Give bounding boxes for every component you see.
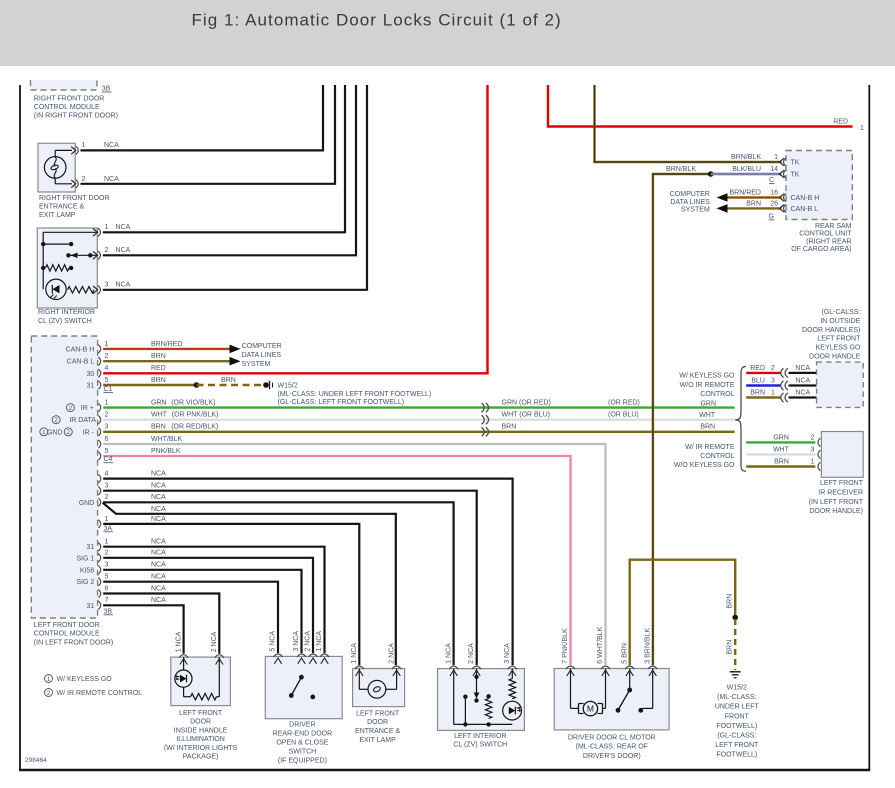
- svg-text:DOOR HANDLE): DOOR HANDLE): [809, 508, 863, 515]
- svg-text:BRN: BRN: [750, 389, 765, 396]
- motor pin 3 connector: [648, 666, 657, 669]
- module U1 pin 1 IR plus connector: [66, 400, 108, 413]
- svg-text:6: 6: [105, 436, 109, 443]
- svg-text:GRN (OR RED): GRN (OR RED): [502, 400, 551, 407]
- wire BRN/RED to rear SAM pin 16: [728, 189, 782, 197]
- svg-text:NCA: NCA: [104, 176, 119, 183]
- svg-text:CONTROL: CONTROL: [700, 453, 734, 460]
- svg-text:DRIVER DOOR CL MOTOR: DRIVER DOOR CL MOTOR: [568, 734, 656, 741]
- arrow to computer data lines 1: [230, 345, 241, 354]
- wire BRN IR remote option: [746, 458, 815, 466]
- svg-text:W/ IR REMOTE: W/ IR REMOTE: [685, 444, 735, 451]
- svg-text:W/ IR REMOTE CONTROL: W/ IR REMOTE CONTROL: [57, 690, 143, 697]
- inline connector on BRN NCA wire: [781, 393, 788, 402]
- svg-text:ENTRANCE &: ENTRANCE &: [39, 204, 84, 211]
- svg-text:1: 1: [105, 516, 109, 523]
- svg-text:(OR RED/BLK): (OR RED/BLK): [171, 424, 218, 431]
- svg-text:WHT: WHT: [699, 412, 716, 419]
- lamp L3 left front door entrance and exit lamp box: [353, 669, 405, 707]
- ground symbol W15/2: [730, 672, 741, 678]
- svg-text:G: G: [769, 213, 774, 220]
- svg-text:1: 1: [771, 389, 775, 396]
- wire WHT IR remote option: [746, 446, 815, 454]
- wire BRN to rear SAM pin 26: [728, 200, 782, 208]
- wire NCA C4 pin 4 to left interior switch pin 3: [103, 471, 512, 666]
- svg-text:W15/2: W15/2: [278, 382, 298, 389]
- wire NCA switch S1 pin 3 to top: [103, 85, 367, 290]
- connector label 3B top: [102, 86, 112, 93]
- LED in switch S3: [503, 701, 522, 720]
- svg-text:(OR VIO/BLK): (OR VIO/BLK): [171, 400, 215, 407]
- svg-text:OF CARGO AREA): OF CARGO AREA): [791, 246, 851, 253]
- rear-end switch pin 5 connector: [273, 654, 282, 657]
- wire NCA switch S1 pin 2 to top: [103, 85, 356, 255]
- svg-text:CONTROL MODULE: CONTROL MODULE: [34, 104, 100, 111]
- svg-text:(OR BLU): (OR BLU): [608, 412, 639, 419]
- connector label G rear SAM: [769, 213, 775, 220]
- svg-text:1: 1: [105, 341, 109, 348]
- svg-text:IR DATA: IR DATA: [69, 417, 96, 424]
- svg-text:BRN: BRN: [151, 424, 166, 431]
- module U1 pin 6 connector: [98, 436, 108, 448]
- svg-text:2: 2: [771, 365, 775, 372]
- module U1 pin 5 connector: [98, 448, 108, 460]
- svg-text:KEYLESS GO: KEYLESS GO: [816, 345, 861, 352]
- svg-text:LEFT INTERIOR: LEFT INTERIOR: [454, 733, 506, 740]
- wire NCA keyless go pin 3: [789, 377, 817, 385]
- svg-text:4: 4: [105, 365, 109, 372]
- svg-text:1: 1: [774, 154, 778, 161]
- switch S2 driver rear-end door open and close switch box: [265, 656, 342, 718]
- svg-text:EXIT LAMP: EXIT LAMP: [39, 212, 76, 219]
- module U1 pin 6 3A connector: [98, 585, 108, 597]
- lamp L2 left front door inside handle illumination box: [171, 657, 231, 706]
- wire BRN IR minus to brace: [103, 423, 734, 432]
- svg-text:GND: GND: [79, 500, 95, 507]
- svg-text:2: 2: [105, 412, 109, 419]
- svg-text:NCA: NCA: [795, 365, 810, 372]
- svg-text:LEFT FRONT: LEFT FRONT: [356, 710, 400, 717]
- connector label C rear SAM: [769, 177, 775, 184]
- svg-text:1 NCA: 1 NCA: [175, 631, 182, 652]
- svg-text:RED: RED: [833, 118, 848, 125]
- svg-text:W/O KEYLESS GO: W/O KEYLESS GO: [674, 462, 735, 469]
- svg-text:BRN: BRN: [151, 353, 166, 360]
- svg-text:IN OUTSIDE: IN OUTSIDE: [820, 318, 860, 325]
- connector label C1: [104, 386, 114, 393]
- svg-text:CONTROL: CONTROL: [700, 391, 734, 398]
- svg-text:BRN/BLK: BRN/BLK: [666, 166, 696, 173]
- svg-text:Fig 1: Automatic Door Locks Ci: Fig 1: Automatic Door Locks Circuit (1 o…: [192, 11, 562, 30]
- illumination pin 1 connector: [179, 655, 188, 658]
- svg-text:5 NCA: 5 NCA: [270, 631, 277, 652]
- module U1 pin 3 KI58 connector: [80, 562, 109, 575]
- wire BLU keyless go option: [746, 377, 780, 385]
- svg-text:C4: C4: [104, 456, 113, 463]
- wire NCA lamp L1 pin 1 to top: [81, 85, 324, 150]
- module U1 pin 3 C4 connector: [98, 483, 108, 495]
- wire NCA switch S1 pin 1 to top: [103, 85, 345, 232]
- module U1 left front door control module box: [31, 336, 97, 618]
- module fragment right front door control module: [31, 80, 98, 90]
- lamp L1 pin 1 connector: [71, 142, 85, 154]
- svg-text:2: 2: [105, 247, 109, 254]
- lamp L1 right front door entrance and exit lamp box: [38, 143, 75, 192]
- IR receiver pin 3 connector: [818, 450, 820, 458]
- LED in switch S1: [46, 279, 66, 299]
- svg-text:FRONT: FRONT: [725, 713, 750, 720]
- svg-text:NCA: NCA: [795, 377, 810, 384]
- wire RED terminal 30 up to top: [103, 85, 487, 373]
- motor pin 7 connector: [566, 666, 575, 669]
- wire NCA 3A pin 7 to inside handle illumination pin 1: [103, 597, 183, 654]
- svg-text:(GL-CALSS:: (GL-CALSS:: [821, 309, 860, 316]
- rear-end switch pin 3 connector: [297, 654, 306, 657]
- svg-text:W/ KEYLESS GO: W/ KEYLESS GO: [57, 676, 113, 683]
- switch S3 pin 1 connector: [449, 666, 458, 669]
- svg-text:BRN: BRN: [727, 640, 734, 655]
- svg-text:BLK/BLU: BLK/BLU: [732, 166, 761, 173]
- inline connector pair on BRN wire: [482, 427, 489, 436]
- svg-text:NCA: NCA: [151, 471, 166, 478]
- wire NCA 3A pin 6 to inside handle illumination pin 2: [103, 585, 219, 653]
- svg-text:IR RECEIVER: IR RECEIVER: [818, 490, 863, 497]
- wire BRN/BLK branch down to driver door CL motor pin 3: [653, 166, 711, 665]
- wire NCA C4 pin 1 to left front door lamp pin 1: [103, 516, 359, 665]
- svg-text:SIG 2: SIG 2: [76, 579, 94, 586]
- svg-text:LEFT FRONT: LEFT FRONT: [179, 710, 223, 717]
- module U1 pin 2 CAN-B L connector: [67, 353, 109, 366]
- svg-text:6 WHT/BLK: 6 WHT/BLK: [597, 626, 604, 663]
- brace selector for keyless go / IR remote options: [735, 366, 746, 471]
- svg-text:2: 2: [105, 353, 109, 360]
- svg-text:(IN RIGHT FRONT DOOR): (IN RIGHT FRONT DOOR): [34, 113, 118, 120]
- svg-text:(IN LEFT FRONT DOOR): (IN LEFT FRONT DOOR): [34, 639, 113, 646]
- svg-text:5 BRN: 5 BRN: [621, 643, 628, 664]
- module U3 left front keyless go door handle box: [817, 362, 864, 407]
- illumination pin 2 connector: [215, 655, 224, 658]
- svg-text:BRN/RED: BRN/RED: [729, 189, 761, 196]
- svg-text:FOOTWELL): FOOTWELL): [716, 752, 757, 759]
- svg-text:BRN/BLK: BRN/BLK: [731, 154, 761, 161]
- svg-text:DATA LINES: DATA LINES: [670, 199, 710, 206]
- svg-text:2: 2: [105, 550, 109, 557]
- svg-text:26: 26: [770, 200, 778, 207]
- svg-text:NCA: NCA: [116, 247, 131, 254]
- svg-text:NCA: NCA: [151, 483, 166, 490]
- svg-text:BRN: BRN: [502, 424, 517, 431]
- svg-text:REAR SAM: REAR SAM: [815, 223, 852, 230]
- module U1 pin 3 GND IR minus connector: [40, 424, 109, 437]
- svg-text:(ML-CLASS: UNDER LEFT FRONT FO: (ML-CLASS: UNDER LEFT FRONT FOOTWELL): [278, 391, 432, 398]
- svg-text:SWITCH: SWITCH: [289, 748, 317, 755]
- junction dot on BRN ground wire: [732, 615, 738, 621]
- svg-text:1: 1: [105, 224, 109, 231]
- svg-text:31: 31: [87, 603, 95, 610]
- svg-text:NCA: NCA: [151, 562, 166, 569]
- svg-text:BRN: BRN: [746, 200, 761, 207]
- LED in illumination box: [175, 670, 192, 687]
- svg-text:3 NCA: 3 NCA: [504, 643, 511, 664]
- module U2 rear SAM control unit box: [786, 151, 852, 220]
- label W15/2 footwell: [278, 382, 432, 406]
- module U1 pin 4 C4 connector: [98, 471, 108, 483]
- motor M1 driver door CL motor box: [554, 669, 669, 730]
- svg-text:5: 5: [105, 574, 109, 581]
- svg-text:C: C: [769, 177, 774, 184]
- svg-text:PNK/BLK: PNK/BLK: [151, 448, 181, 455]
- legend circled 2 W/ IR REMOTE CONTROL: [45, 689, 143, 698]
- svg-text:REAR-END DOOR: REAR-END DOOR: [273, 730, 333, 737]
- inline connector on BLU NCA wire: [781, 381, 788, 390]
- junction dot on BRN wire: [194, 382, 200, 388]
- motor pin 6 connector: [601, 666, 610, 669]
- svg-text:C1: C1: [104, 386, 113, 393]
- svg-text:3 BRN/BLK: 3 BRN/BLK: [644, 628, 651, 664]
- wire RED keyless go option: [746, 365, 780, 373]
- inline connector pair on WHT wire: [482, 415, 489, 424]
- svg-text:BRN: BRN: [151, 377, 166, 384]
- switch S1 pin 3 connector: [93, 282, 109, 294]
- connector label C4: [104, 456, 114, 463]
- module U1 pin 4 terminal 30 connector: [87, 365, 109, 378]
- svg-text:CAN-B L: CAN-B L: [791, 206, 819, 213]
- svg-text:1: 1: [82, 142, 86, 149]
- svg-text:DRIVER'S DOOR): DRIVER'S DOOR): [583, 753, 641, 760]
- svg-text:DOOR: DOOR: [367, 719, 388, 726]
- wire WHT/BLK to driver door CL motor pin 6: [103, 436, 605, 665]
- svg-text:RIGHT INTERIOR: RIGHT INTERIOR: [38, 309, 95, 316]
- svg-text:CL (ZV) SWITCH: CL (ZV) SWITCH: [38, 318, 92, 325]
- svg-text:OPEN & CLOSE: OPEN & CLOSE: [276, 739, 328, 746]
- junction dot BRN/BLK BLK/BLU: [708, 171, 714, 177]
- svg-text:3B: 3B: [102, 86, 111, 93]
- svg-text:NCA: NCA: [151, 550, 166, 557]
- lamp L3 pin 1 connector: [355, 666, 364, 669]
- svg-text:KI58: KI58: [80, 567, 95, 574]
- svg-text:NCA: NCA: [116, 282, 131, 289]
- dashed wire BRN to ground: [734, 619, 736, 670]
- svg-text:WHT: WHT: [773, 446, 790, 453]
- svg-text:FOOTWELL): FOOTWELL): [716, 723, 757, 730]
- svg-text:DRIVER: DRIVER: [289, 721, 315, 728]
- module U4 left front IR receiver box: [821, 432, 863, 478]
- wire BLK/BLU to rear SAM pin 14: [711, 166, 782, 174]
- wire BRN keyless go option: [746, 389, 780, 397]
- module U1 pin 1 3A terminal 31 connector: [87, 539, 109, 552]
- svg-text:5: 5: [105, 377, 109, 384]
- svg-text:(ML-CLASS:: (ML-CLASS:: [717, 694, 756, 701]
- svg-text:3: 3: [105, 424, 109, 431]
- svg-text:6: 6: [105, 585, 109, 592]
- wire NCA 3A pin 3 to rear-end door switch pin 3: [103, 562, 301, 653]
- svg-text:16: 16: [770, 189, 778, 196]
- svg-text:30: 30: [87, 371, 95, 378]
- svg-text:3A: 3A: [104, 525, 113, 532]
- arrow from computer data lines to rear SAM CAN-B H: [717, 193, 728, 202]
- svg-text:SIG 1: SIG 1: [76, 555, 94, 562]
- svg-text:BLU: BLU: [751, 377, 765, 384]
- svg-text:W/ KEYLESS GO: W/ KEYLESS GO: [679, 373, 735, 380]
- wire NCA C4 pin 3 to left interior switch pin 2: [103, 483, 477, 666]
- svg-text:(OR RED): (OR RED): [608, 400, 640, 407]
- svg-text:3: 3: [105, 562, 109, 569]
- svg-text:BRN: BRN: [221, 377, 236, 384]
- wire NCA 3A pin 1 to rear-end door switch pin 1: [103, 539, 324, 654]
- module U1 pin 2 SIG 1 connector: [76, 550, 108, 563]
- svg-text:PACKAGE): PACKAGE): [183, 754, 219, 761]
- switch S3 left interior CL ZV switch box: [438, 669, 525, 731]
- svg-text:NCA: NCA: [151, 506, 166, 513]
- svg-text:NCA: NCA: [151, 585, 166, 592]
- wire NCA keyless go pin 1: [789, 389, 817, 397]
- svg-text:M: M: [587, 704, 594, 714]
- wire NCA 3A pin 2 to rear-end door switch pin 2: [103, 550, 313, 653]
- wire GRN IR remote option: [746, 434, 815, 442]
- module U1 pin 5 terminal 31 connector: [87, 377, 109, 390]
- svg-text:3: 3: [105, 282, 109, 289]
- wire BRN/RED CAN-B H to computer data lines: [103, 341, 230, 349]
- switch S3 pin 2 connector: [472, 666, 481, 669]
- connector label 3A: [104, 525, 114, 532]
- resistor in illumination box: [191, 694, 217, 700]
- svg-text:4: 4: [105, 471, 109, 478]
- rear SAM pin 1 connector: [774, 154, 800, 167]
- svg-text:14: 14: [770, 166, 778, 173]
- svg-text:1 NCA: 1 NCA: [445, 643, 452, 664]
- svg-text:(OR PNK/BLK): (OR PNK/BLK): [172, 412, 219, 419]
- arrow from computer data lines to rear SAM CAN-B L: [717, 204, 728, 213]
- wire BRN/BLK from top to rear SAM pin 1: [595, 85, 782, 162]
- svg-text:298464: 298464: [25, 757, 47, 764]
- wire NCA 3A pin 5 to rear-end door switch pin 5: [103, 574, 278, 654]
- switch S3 pin 3 connector: [508, 666, 517, 669]
- svg-text:1 NCA: 1 NCA: [316, 631, 323, 652]
- svg-text:CONTROL UNIT: CONTROL UNIT: [799, 231, 852, 238]
- svg-text:NCA: NCA: [795, 389, 810, 396]
- svg-text:CL (ZV) SWITCH: CL (ZV) SWITCH: [453, 741, 507, 748]
- svg-text:LEFT FRONT: LEFT FRONT: [715, 742, 759, 749]
- splice symbol W15/2: [263, 381, 272, 389]
- svg-text:IR -: IR -: [83, 429, 95, 436]
- svg-text:TK: TK: [791, 172, 800, 179]
- svg-text:NCA: NCA: [151, 574, 166, 581]
- arrow to computer data lines 2: [230, 357, 241, 366]
- svg-text:1: 1: [105, 539, 109, 546]
- lamp symbol in L3: [368, 680, 386, 698]
- motor pin 5 connector: [625, 666, 634, 669]
- svg-text:(W/ INTERIOR LIGHTS: (W/ INTERIOR LIGHTS: [164, 745, 238, 752]
- svg-text:UNDER LEFT: UNDER LEFT: [715, 704, 760, 711]
- svg-text:W/O IR REMOTE: W/O IR REMOTE: [680, 382, 735, 389]
- IR receiver pin 2 connector: [818, 438, 820, 446]
- switch arm in motor box: [616, 688, 644, 713]
- svg-text:NCA: NCA: [104, 142, 119, 149]
- svg-text:5: 5: [105, 448, 109, 455]
- connector label 3B: [104, 608, 114, 615]
- wire NCA C4 pin 2 to left interior switch pin 1: [103, 494, 453, 665]
- wire NCA lamp L1 pin 2 to top: [81, 85, 336, 184]
- svg-text:3B: 3B: [104, 608, 113, 615]
- wire RED power feed top right: [548, 85, 864, 132]
- svg-text:SYSTEM: SYSTEM: [681, 207, 710, 214]
- svg-text:7: 7: [105, 597, 109, 604]
- module U1 pin 1 CAN-B H connector: [66, 341, 109, 354]
- svg-text:NCA: NCA: [151, 539, 166, 546]
- svg-text:DOOR: DOOR: [190, 719, 211, 726]
- svg-text:LEFT FRONT: LEFT FRONT: [817, 336, 861, 343]
- svg-text:LEFT FRONT: LEFT FRONT: [820, 480, 864, 487]
- resistor mid in switch S3: [485, 699, 491, 719]
- wire GRN IR plus to brace: [103, 400, 734, 408]
- switch S1 pin 2 connector: [93, 247, 109, 259]
- svg-text:BRN/RED: BRN/RED: [151, 341, 183, 348]
- svg-text:INSIDE HANDLE: INSIDE HANDLE: [174, 727, 228, 734]
- svg-text:2: 2: [811, 434, 815, 441]
- svg-text:RIGHT FRONT DOOR: RIGHT FRONT DOOR: [39, 195, 110, 202]
- svg-text:ENTRANCE &: ENTRANCE &: [355, 728, 400, 735]
- svg-text:GRN: GRN: [773, 434, 789, 441]
- svg-text:31: 31: [87, 544, 95, 551]
- resistor right in switch S3: [509, 679, 515, 699]
- svg-text:DOOR HANDLE: DOOR HANDLE: [809, 354, 861, 361]
- svg-text:TK: TK: [791, 160, 800, 167]
- svg-text:ILLUMINATION: ILLUMINATION: [176, 736, 225, 743]
- rear-end switch pin 1 connector: [320, 654, 329, 657]
- svg-text:DATA LINES: DATA LINES: [242, 352, 282, 359]
- svg-text:GRN: GRN: [700, 401, 716, 408]
- svg-text:2 NCA: 2 NCA: [468, 643, 475, 664]
- svg-text:2 NCA: 2 NCA: [388, 643, 395, 664]
- svg-text:1 NCA: 1 NCA: [351, 643, 358, 664]
- svg-text:NCA: NCA: [151, 494, 166, 501]
- svg-text:(IN LEFT FRONT: (IN LEFT FRONT: [809, 499, 864, 506]
- wire BRN terminal 31 to splice: [103, 377, 196, 385]
- switch S1 right interior CL ZV switch box: [37, 228, 97, 308]
- wire PNK/BLK to driver door CL motor pin 7: [103, 448, 570, 665]
- lamp L3 pin 2 connector: [392, 666, 401, 669]
- svg-text:1: 1: [811, 458, 815, 465]
- svg-text:7 PNK/BLK: 7 PNK/BLK: [562, 628, 569, 664]
- svg-text:2: 2: [82, 176, 86, 183]
- resistor to switch S1 pin 3: [68, 287, 95, 293]
- svg-text:CAN-B H: CAN-B H: [791, 195, 820, 202]
- wire NCA keyless go pin 2: [789, 365, 817, 373]
- inline connector on RED NCA wire: [781, 368, 788, 377]
- switch S1 pin 1 connector: [93, 224, 109, 236]
- svg-text:WHT (OR BLU): WHT (OR BLU): [502, 412, 550, 419]
- IR receiver pin 1 connector: [818, 462, 820, 470]
- module U1 pin 5 SIG 2 connector: [76, 574, 108, 587]
- wire BRN ground feed to driver door CL motor pin 5: [630, 560, 736, 666]
- svg-text:RED: RED: [151, 365, 166, 372]
- svg-text:W15/2: W15/2: [727, 685, 747, 692]
- module U1 pin 2 IR DATA connector: [52, 412, 108, 425]
- svg-text:LEFT FRONT DOOR: LEFT FRONT DOOR: [34, 622, 100, 629]
- svg-text:NCA: NCA: [151, 597, 166, 604]
- svg-text:2 NCA: 2 NCA: [305, 631, 312, 652]
- wire BRN CAN-B L to computer data lines: [103, 353, 230, 361]
- svg-text:BRN: BRN: [727, 594, 734, 609]
- svg-text:IR +: IR +: [81, 405, 94, 412]
- header bar: [0, 0, 895, 66]
- svg-text:(ML-CLASS: REAR OF: (ML-CLASS: REAR OF: [576, 744, 648, 751]
- svg-text:RIGHT FRONT DOOR: RIGHT FRONT DOOR: [34, 95, 105, 102]
- rear SAM pin 14 connector: [770, 166, 800, 179]
- svg-text:3 NCA: 3 NCA: [293, 631, 300, 652]
- svg-text:COMPUTER: COMPUTER: [242, 343, 282, 350]
- svg-text:2: 2: [105, 494, 109, 501]
